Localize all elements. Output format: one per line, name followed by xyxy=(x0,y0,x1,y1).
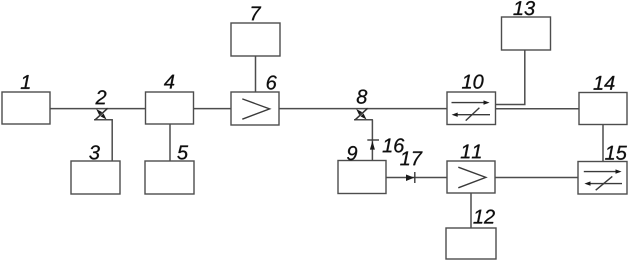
label 9 xyxy=(347,146,357,160)
label 1 xyxy=(21,75,30,89)
wire block7 to block6 xyxy=(255,56,257,92)
label 14 xyxy=(594,76,615,90)
connector arrow 16 xyxy=(367,140,379,150)
variable attenuator 15 xyxy=(578,162,627,195)
block 13 xyxy=(502,17,551,50)
amplifier 11 xyxy=(447,161,495,193)
label 6 xyxy=(267,75,277,89)
wire block11 to block15 xyxy=(495,177,578,179)
label 11 xyxy=(461,145,481,159)
label 2 xyxy=(95,90,106,104)
label 4 xyxy=(164,75,174,89)
amplifier 6 xyxy=(231,92,279,125)
label 12 xyxy=(473,210,494,224)
block 9 xyxy=(338,161,386,194)
block 3 xyxy=(71,161,120,194)
wire block11 to block12 xyxy=(470,193,472,228)
variable attenuator 10 xyxy=(447,92,496,125)
label 7 xyxy=(252,7,262,21)
block 4 xyxy=(146,92,194,124)
label 8 xyxy=(357,90,367,104)
label 10 xyxy=(462,75,484,89)
wire block14 to block15 xyxy=(602,125,604,162)
wire main line block4 to block6 xyxy=(194,108,232,110)
label 17 xyxy=(400,151,422,165)
wire block9 to block11 xyxy=(386,177,447,179)
label 15 xyxy=(605,146,627,160)
wire main line block6 to block10 xyxy=(279,108,447,110)
wire tap block10 to block13 xyxy=(496,50,525,105)
wire coupler2 to block3 xyxy=(111,120,113,161)
block 1 xyxy=(2,92,50,124)
directional coupler 2 xyxy=(94,108,113,120)
block 7 xyxy=(231,23,280,56)
label 13 xyxy=(513,1,535,15)
wire coupler8 to block9 xyxy=(371,120,373,161)
wire main line block1 to block4 xyxy=(50,108,146,110)
block 14 xyxy=(579,93,627,125)
wire block4 to block5 xyxy=(169,124,171,161)
label 3 xyxy=(89,145,99,159)
label 16 xyxy=(383,138,405,152)
connector arrow 17 xyxy=(406,172,415,183)
block 12 xyxy=(446,228,496,259)
directional coupler 8 xyxy=(354,108,373,120)
block 5 xyxy=(145,161,194,194)
label 5 xyxy=(177,146,188,160)
wire main line block10 to block14 xyxy=(496,108,580,110)
